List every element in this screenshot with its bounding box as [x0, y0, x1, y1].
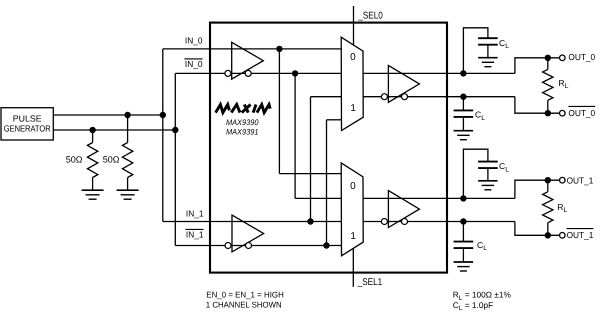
svg-text:1 CHANNEL SHOWN: 1 CHANNEL SHOWN: [206, 300, 282, 310]
svg-text:IN_1: IN_1: [186, 230, 204, 240]
svg-text:IN_0: IN_0: [185, 35, 203, 45]
capacitor CL (OUT_0) connection: [463, 28, 488, 74]
capacitor CL (OUT_0bar) connection: [462, 97, 464, 111]
resistor R1 50ohm: [87, 143, 97, 178]
wire CL to ground: [462, 248, 464, 262]
ground under CL (OUT_1bar): [454, 262, 474, 271]
svg-text:_SEL0: _SEL0: [357, 10, 383, 21]
svg-text:OUT_1: OUT_1: [567, 230, 594, 240]
svg-text:IN_0: IN_0: [185, 59, 203, 69]
label IN_1bar: [185, 228, 203, 230]
terminal OUT_0bar: [560, 110, 566, 116]
svg-text:OUT_0: OUT_0: [568, 52, 595, 62]
ground under CL (OUT_1): [478, 181, 498, 190]
wire IN_1bar row to mux1 in1b: [175, 245, 341, 247]
wire CL to ground: [462, 117, 464, 131]
capacitor CL (OUT_0): [478, 38, 498, 45]
wire pulse generator top output: [53, 114, 163, 116]
wire _SEL1 select line: [352, 248, 354, 286]
mux U2A ch0: [341, 37, 363, 130]
wire drop A (ch0 true to mux1): [278, 49, 280, 174]
logo MAXIM: [216, 105, 271, 113]
node junction bottom wire / R1: [89, 127, 95, 133]
wire pulse generator bottom output: [53, 129, 175, 131]
terminal OUT_0: [560, 55, 566, 61]
svg-text:1: 1: [350, 231, 356, 242]
svg-text:MAX9390: MAX9390: [226, 118, 259, 127]
resistor RL ch0: [543, 69, 553, 100]
node OUT_1 / RL: [545, 177, 551, 183]
svg-text:PULSE: PULSE: [13, 114, 42, 124]
node ch0 comp branch: [292, 70, 298, 76]
input buffer U1A ch0: [225, 42, 263, 79]
wire IN_1 row to mux1 in1: [163, 221, 341, 223]
wire IN_0bar row to mux0 in0b: [175, 72, 341, 74]
svg-text:0: 0: [350, 52, 356, 63]
terminal OUT_1: [560, 177, 566, 183]
node junction top wire / R2: [124, 112, 130, 118]
svg-text:GENERATOR: GENERATOR: [4, 124, 51, 134]
svg-text:OUT_0: OUT_0: [568, 108, 595, 118]
wire riser C (ch1 true to mux0): [310, 97, 312, 222]
capacitor CL (OUT_1bar) connection: [462, 222, 464, 242]
capacitor CL (OUT_1) connection: [463, 149, 488, 198]
wire mux1 comp output row: [363, 221, 515, 223]
output buffer U3B ch1: [381, 191, 419, 228]
node junction bottom wire / comp riser: [172, 127, 178, 133]
node OUT_1bar / RL: [545, 232, 551, 238]
wire mux0 comp output row: [363, 96, 515, 98]
svg-text:IN_1: IN_1: [186, 208, 204, 218]
node OUT_0 / RL: [545, 55, 551, 61]
ground under CL (OUT_0): [478, 58, 498, 67]
wire true riser V1: [162, 49, 164, 222]
wire IN_0 row to mux0 in0: [163, 48, 341, 50]
node OUT_1 / CL branch: [460, 195, 466, 201]
svg-text:50Ω: 50Ω: [103, 155, 120, 165]
ground under R1: [82, 190, 104, 199]
wire mux1 in0 from drop A: [279, 173, 341, 175]
wire R1 bottom lead: [92, 178, 94, 191]
wire comp riser V2: [174, 73, 176, 245]
svg-text:1: 1: [350, 103, 356, 114]
svg-text:_SEL1: _SEL1: [357, 277, 382, 288]
wire OUT_1 step: [515, 180, 562, 198]
wire riser D (ch1 comp to mux0): [326, 120, 328, 246]
mux U2B ch1: [341, 163, 363, 256]
capacitor CL (OUT_1bar): [454, 242, 474, 249]
wire mux0 in1b from riser D: [327, 119, 342, 121]
svg-text:MAX9391: MAX9391: [226, 128, 259, 137]
label IN_0bar: [184, 58, 202, 60]
svg-text:EN_0 = EN_1 = HIGH: EN_0 = EN_1 = HIGH: [206, 290, 283, 300]
wire R2 top lead: [127, 115, 129, 143]
svg-text:50Ω: 50Ω: [66, 155, 83, 165]
wire mux0 in1 from riser C: [311, 96, 342, 98]
capacitor CL (OUT_1): [478, 162, 498, 169]
wire mux0 true output row: [363, 72, 515, 74]
ground under CL (OUT_0bar): [454, 131, 474, 140]
wire mux1 in0b from drop B: [295, 197, 341, 199]
wire CL to ground: [487, 168, 489, 181]
node ch1 true branch: [307, 218, 313, 224]
label OUT_1bar: [567, 228, 594, 230]
wire RL ch1 bottom lead: [547, 223, 549, 236]
svg-text:0: 0: [350, 181, 356, 192]
wire drop B (ch0 comp to mux1): [294, 73, 296, 198]
wire R1 top lead: [92, 130, 94, 143]
wire CL to ground: [487, 45, 489, 58]
resistor RL ch1: [543, 192, 553, 223]
wire mux1 true output row: [363, 197, 515, 199]
wire OUT_0bar step: [515, 97, 562, 114]
output buffer U3A ch0: [381, 65, 419, 102]
node OUT_0 / CL branch: [460, 70, 466, 76]
IC box MAX9390/MAX9391: [210, 23, 447, 273]
wire OUT_1bar step: [515, 222, 562, 236]
node OUT_1bar / CL branch: [460, 218, 466, 224]
wire RL bottom lead: [547, 100, 549, 113]
ground under R2: [117, 190, 139, 199]
wire RL top lead: [547, 58, 549, 70]
node ch1 comp branch: [323, 242, 329, 248]
node OUT_0bar / RL: [545, 110, 551, 116]
terminal OUT_1bar: [560, 233, 566, 239]
input buffer U1B ch1: [225, 215, 264, 252]
wire RL ch1 top lead: [547, 180, 549, 192]
node junction top wire / true riser: [160, 112, 166, 118]
label OUT_0bar: [568, 105, 595, 107]
svg-text:OUT_1: OUT_1: [567, 175, 594, 185]
node ch0 true branch: [276, 46, 282, 52]
wire OUT_0 step: [515, 58, 562, 74]
capacitor CL (OUT_0bar): [454, 110, 474, 117]
resistor R2 50ohm: [122, 143, 132, 178]
wire R2 bottom lead: [127, 178, 129, 191]
node OUT_0bar / CL branch: [460, 94, 466, 100]
wire _SEL0 select line: [353, 6, 355, 45]
pulse generator box: [1, 108, 53, 140]
